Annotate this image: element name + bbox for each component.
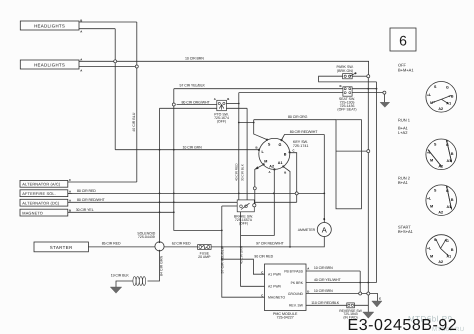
wire afterfire stub bbox=[68, 192, 72, 194]
wire starter 85 CIR RED bbox=[88, 246, 154, 248]
wire headlight H2 bottom bbox=[79, 66, 137, 68]
brake switch body bbox=[237, 200, 254, 212]
svg-text:A: A bbox=[80, 30, 82, 34]
starter box bbox=[34, 242, 88, 252]
svg-text:B: B bbox=[80, 19, 82, 23]
wire PMC PK BRK 40 CIR YEL/WHT bbox=[306, 282, 377, 284]
svg-text:A: A bbox=[322, 225, 327, 234]
svg-text:STARTER: STARTER bbox=[50, 245, 73, 250]
reverse switch body bbox=[347, 303, 355, 308]
svg-text:A: A bbox=[269, 170, 271, 174]
svg-text:B: B bbox=[256, 145, 258, 149]
svg-text:HEADLIGHTS: HEADLIGHTS bbox=[34, 23, 65, 28]
svg-text:A2 PWR: A2 PWR bbox=[268, 285, 282, 289]
svg-text:M: M bbox=[430, 101, 433, 105]
headlights box 1 bbox=[20, 21, 79, 30]
key switch circle bbox=[259, 138, 290, 169]
wire 62 CIR RED solenoid to fuse bbox=[163, 246, 197, 248]
svg-text:(OFF): (OFF) bbox=[217, 120, 226, 124]
wire vertical x=376 bbox=[376, 82, 378, 283]
wire coil to ground 19 CIR BLK bbox=[116, 281, 133, 287]
seat switch body bbox=[343, 87, 352, 96]
svg-text:A2: A2 bbox=[438, 260, 443, 264]
wire 80 CIR RED/WHT alternator DC bbox=[68, 201, 297, 203]
svg-text:(OFF): (OFF) bbox=[239, 221, 248, 225]
wire vertical x=324 to ammeter bbox=[323, 135, 325, 223]
svg-text:M: M bbox=[430, 254, 433, 258]
svg-text:B: B bbox=[323, 217, 325, 221]
key switch terminal M bbox=[263, 163, 265, 165]
wire vertical x=159 solenoid top bbox=[159, 108, 161, 243]
svg-text:ALTERNATOR (A/C): ALTERNATOR (A/C) bbox=[22, 182, 61, 187]
wire 30 CIR YEL magneto bbox=[68, 211, 174, 213]
wire PMC GROUND 10 CIR BRN bbox=[306, 294, 378, 302]
svg-text:B: B bbox=[227, 97, 229, 101]
wire alternator AC feed bbox=[68, 181, 137, 183]
wire key A1 drop bbox=[283, 167, 290, 247]
svg-text:A2: A2 bbox=[269, 165, 274, 169]
svg-text:C: C bbox=[261, 271, 263, 275]
wire 90 CIR RED to PMC A1 PWR bbox=[222, 259, 265, 274]
wire vertical x=368 main right drop bbox=[367, 78, 369, 306]
svg-text:E3-02458B-92: E3-02458B-92 bbox=[348, 317, 458, 334]
wire PTO bypass bbox=[160, 107, 248, 109]
svg-text:A: A bbox=[214, 97, 216, 101]
svg-text:B: B bbox=[284, 171, 286, 175]
svg-text:D: D bbox=[307, 290, 309, 294]
svg-text:40 CIR RED: 40 CIR RED bbox=[235, 163, 239, 181]
svg-text:HEADLIGHTS: HEADLIGHTS bbox=[34, 62, 65, 67]
svg-text:110 CIR RED/BLK: 110 CIR RED/BLK bbox=[311, 301, 339, 305]
wire vertical x=239 to brake switch bbox=[238, 93, 240, 200]
wire vertical x=174 bbox=[174, 89, 222, 231]
svg-text:62 CIR RED: 62 CIR RED bbox=[172, 242, 191, 246]
wire key G 80 CIR RED/WHT bbox=[282, 135, 325, 141]
wire PMC REV SW 110 CIR RED/BLK bbox=[306, 304, 347, 306]
svg-text:B: B bbox=[451, 95, 454, 99]
headlights box 2 bbox=[20, 60, 79, 69]
svg-text:REV. SW: REV. SW bbox=[289, 304, 304, 308]
fuse body bbox=[198, 245, 212, 250]
junction dots bbox=[159, 149, 161, 151]
wire vertical x=115 headlight to key L bbox=[114, 29, 116, 150]
callout box 6 bbox=[390, 28, 416, 51]
wire 57 CIR YEL/BLK seat top bbox=[174, 88, 377, 90]
svg-text:AMMETER: AMMETER bbox=[298, 228, 316, 232]
wire reverse switch to ground bbox=[354, 305, 368, 312]
wire key S junction bbox=[239, 120, 267, 140]
svg-text:C: C bbox=[261, 294, 263, 298]
svg-text:A: A bbox=[69, 189, 71, 193]
svg-text:80 CIR ORG/WHT: 80 CIR ORG/WHT bbox=[182, 100, 211, 104]
connector block rectangle bbox=[336, 120, 361, 209]
svg-text:10 CIR BRN: 10 CIR BRN bbox=[314, 289, 333, 293]
wire 80 CIR ORG/WHT to PTO bbox=[177, 104, 218, 106]
svg-text:A2: A2 bbox=[438, 210, 443, 214]
svg-text:B+M+A1: B+M+A1 bbox=[398, 67, 414, 72]
key switch terminal L bbox=[258, 149, 260, 151]
svg-text:PB BYPASS: PB BYPASS bbox=[284, 269, 304, 273]
wire 97 CIR RED/WHT fuse to ammeter bbox=[211, 237, 324, 247]
crossing circles bbox=[114, 60, 117, 63]
reverse switch contacts bbox=[348, 304, 350, 306]
svg-text:10 CIR GRN: 10 CIR GRN bbox=[183, 145, 203, 149]
svg-text:10 CIR BRN: 10 CIR BRN bbox=[314, 266, 333, 270]
svg-text:A2: A2 bbox=[438, 107, 443, 111]
wire 10 CIR GRN key L bbox=[115, 149, 259, 151]
svg-text:40 CIR YEL/WHT: 40 CIR YEL/WHT bbox=[314, 278, 342, 282]
svg-text:B+A1: B+A1 bbox=[398, 180, 409, 185]
park switch contacts bbox=[344, 75, 346, 77]
svg-text:B: B bbox=[340, 84, 342, 88]
svg-text:30 CIR BLK: 30 CIR BLK bbox=[240, 163, 244, 181]
brake switch pivot bbox=[253, 204, 256, 207]
ignition position RUN2 circle bbox=[426, 185, 457, 216]
svg-text:C: C bbox=[69, 178, 71, 182]
svg-text:A: A bbox=[80, 57, 82, 61]
wire vertical x=137 headlight to alternator AC bbox=[136, 22, 138, 182]
key switch terminal A1 bbox=[282, 165, 284, 167]
wire vertical x=360 bbox=[359, 271, 361, 294]
svg-text:AFTERFIRE SOL.: AFTERFIRE SOL. bbox=[22, 191, 56, 196]
svg-text:80 CIR ORG: 80 CIR ORG bbox=[288, 115, 308, 119]
wire 80 CIR ORG bbox=[254, 119, 336, 121]
park switch lever bbox=[350, 73, 356, 76]
svg-text:(OFF SEAT): (OFF SEAT) bbox=[337, 108, 356, 112]
wire 80 CIR RED afterfire bbox=[68, 192, 325, 194]
alternator DC box bbox=[20, 199, 68, 206]
fuse contacts bbox=[199, 246, 202, 249]
svg-text:A1: A1 bbox=[446, 159, 451, 163]
svg-text:E: E bbox=[379, 297, 381, 301]
svg-text:B: B bbox=[451, 198, 454, 202]
svg-text:A1: A1 bbox=[278, 161, 283, 165]
key switch terminal A2 bbox=[273, 168, 275, 170]
svg-text:97 CIR RED/WHT: 97 CIR RED/WHT bbox=[256, 242, 284, 246]
svg-text:80 CIR RED: 80 CIR RED bbox=[77, 189, 96, 193]
svg-text:80 CIR RED/WHT: 80 CIR RED/WHT bbox=[77, 198, 105, 202]
wire 57 CIR YEL/BLK to PMC magneto bbox=[222, 206, 265, 297]
svg-text:80 CIR RED/WHT: 80 CIR RED/WHT bbox=[290, 130, 318, 134]
ground reverse switch bbox=[363, 312, 374, 318]
svg-text:A: A bbox=[307, 267, 309, 271]
headlight H1 top wire bbox=[79, 21, 137, 23]
svg-text:725-04439: 725-04439 bbox=[138, 235, 155, 239]
svg-text:B: B bbox=[69, 208, 71, 212]
svg-text:84 CIR GRN: 84 CIR GRN bbox=[160, 255, 164, 276]
key switch terminal S bbox=[266, 139, 268, 141]
ground PMC bbox=[372, 301, 382, 307]
svg-text:G: G bbox=[446, 86, 449, 90]
key switch terminal B bbox=[289, 151, 291, 153]
wire connector block wire bbox=[336, 150, 370, 152]
svg-text:57 CIR YEL/BLK: 57 CIR YEL/BLK bbox=[180, 84, 206, 88]
svg-text:40 CIR GRN: 40 CIR GRN bbox=[240, 245, 244, 264]
park switch body bbox=[343, 74, 353, 79]
solenoid coil bbox=[133, 277, 136, 286]
magneto box bbox=[20, 209, 68, 216]
svg-text:A: A bbox=[80, 69, 82, 73]
svg-text:A1 PWR: A1 PWR bbox=[268, 273, 282, 277]
svg-text:19 CIR BLK: 19 CIR BLK bbox=[111, 274, 130, 278]
svg-text:30 CIR YEL: 30 CIR YEL bbox=[76, 208, 94, 212]
svg-text:ALTERNATOR (DC): ALTERNATOR (DC) bbox=[22, 201, 60, 206]
svg-text:M: M bbox=[264, 160, 267, 164]
wire park switch right bbox=[352, 75, 367, 77]
wire 10 CIR BRN to park switch bbox=[79, 61, 369, 75]
alternator AC box bbox=[20, 180, 68, 187]
svg-text:20 AMP: 20 AMP bbox=[198, 255, 211, 259]
svg-text:C: C bbox=[293, 149, 295, 153]
svg-text:40 CIR BLU: 40 CIR BLU bbox=[132, 112, 136, 132]
svg-text:90 CIR RED: 90 CIR RED bbox=[254, 255, 273, 259]
ground starter solenoid bbox=[110, 287, 122, 293]
svg-text:(BRK ON): (BRK ON) bbox=[337, 69, 353, 73]
arrow key M wire bbox=[255, 166, 259, 169]
svg-text:A: A bbox=[69, 198, 71, 202]
wire park switch loop bbox=[319, 76, 377, 82]
wire key B drop bbox=[290, 153, 297, 203]
svg-text:MAGNETO: MAGNETO bbox=[268, 296, 285, 300]
svg-text:GROUND: GROUND bbox=[288, 292, 304, 296]
PMC module box bbox=[265, 264, 307, 311]
afterfire box bbox=[20, 190, 68, 197]
wire vertical x=247 to brake switch bbox=[246, 108, 248, 200]
wire seat switch bottom to ground bbox=[239, 92, 385, 94]
svg-text:L+A2: L+A2 bbox=[398, 130, 408, 135]
wire brake bottom to PMC A2 PWR bbox=[241, 212, 265, 286]
wire PTO right bbox=[226, 103, 239, 105]
svg-text:B: B bbox=[451, 248, 454, 252]
svg-text:725-1741: 725-1741 bbox=[293, 144, 309, 148]
svg-text:85 CIR RED: 85 CIR RED bbox=[102, 242, 121, 246]
ignition position START circle bbox=[426, 235, 457, 266]
svg-text:10 CIR BRN: 10 CIR BRN bbox=[185, 57, 204, 61]
svg-text:M: M bbox=[430, 159, 433, 163]
brake switch contacts bbox=[240, 205, 243, 208]
solenoid circle bbox=[155, 242, 164, 251]
PTO switch contacts bbox=[218, 102, 220, 104]
wire PMC PB BYPASS 10 CIR BRN bbox=[306, 270, 360, 272]
svg-text:MAGNETO: MAGNETO bbox=[22, 210, 43, 215]
svg-text:725-04227: 725-04227 bbox=[277, 316, 294, 320]
svg-text:M: M bbox=[430, 205, 433, 209]
svg-text:PK BRK: PK BRK bbox=[291, 281, 304, 285]
ignition position OFF circle bbox=[426, 82, 457, 113]
ground stem seat switch bbox=[383, 94, 385, 102]
PTO switch body bbox=[217, 100, 227, 110]
headlight H1 bottom wire bbox=[79, 28, 115, 30]
wire brake switch left bbox=[222, 205, 237, 207]
ignition position RUN1 circle bbox=[426, 139, 457, 170]
svg-text:B+S+A1: B+S+A1 bbox=[398, 229, 414, 234]
svg-text:G: G bbox=[279, 143, 282, 147]
svg-text:RUN 1: RUN 1 bbox=[398, 117, 411, 122]
wire solenoid coil drop bbox=[148, 251, 160, 281]
ammeter circle bbox=[317, 223, 331, 237]
wire key A2 to brake bottom bbox=[241, 169, 275, 235]
svg-text:B: B bbox=[451, 152, 454, 156]
svg-text:6: 6 bbox=[399, 33, 407, 49]
seat switch contacts bbox=[344, 88, 346, 90]
wire key M to brake pivot bbox=[255, 165, 264, 204]
svg-text:B: B bbox=[284, 153, 287, 157]
ground seat switch bbox=[380, 102, 390, 107]
key switch terminal G bbox=[280, 139, 282, 141]
